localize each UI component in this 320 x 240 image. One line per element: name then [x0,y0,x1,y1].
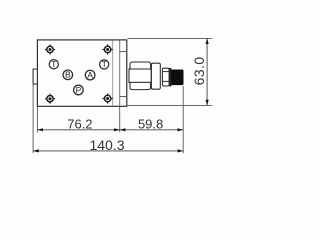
left locating tab [33,69,37,84]
port T right [100,59,109,69]
dimension line 76.2 / 59.8 [37,129,183,131]
extension line bottom (63.0) [128,104,212,106]
valve body block with plate (outline) [37,40,126,106]
port A [85,70,95,80]
svg-text:59.8: 59.8 [138,117,163,132]
extension line block left edge [36,106,38,132]
arrow bowtie right [120,128,126,131]
arrow top 63.0 [206,38,209,44]
screw hole bottom-right [103,93,113,103]
svg-text:P: P [76,85,82,95]
svg-text:A: A [87,70,93,80]
plate inner vertical line [119,40,121,105]
arrow left 140.3 [33,149,39,152]
extension line right (from knob) [182,86,184,153]
block/plate parting line [112,40,114,105]
svg-text:T: T [51,59,56,69]
port B [63,70,73,80]
plate tick top [120,51,127,53]
svg-text:63.0: 63.0 [191,56,207,85]
screw hole top-left [45,44,55,54]
screw hole bottom-left [45,94,55,104]
arrow left 76.2 [37,128,43,131]
extension line plate [119,106,121,132]
arrow bottom 63.0 [206,100,209,106]
arrow right 140.3 [178,149,184,152]
hex nut bottom band [130,82,151,89]
svg-text:76.2: 76.2 [67,117,92,132]
plate tick bottom [120,96,127,98]
dimension line 63.0 vertical [206,38,208,105]
hex nut middle band [129,69,151,82]
svg-text:B: B [65,70,71,80]
svg-text:T: T [102,59,107,69]
washer ring edge [169,68,171,87]
screw hole top-right [103,44,113,54]
port P [74,85,84,95]
adjustment knob (black) [171,70,183,85]
lock nut [162,68,169,86]
dimension line 140.3 [33,150,183,152]
extension line left (from tab) [32,85,34,154]
valve cap [151,63,160,89]
svg-text:140.3: 140.3 [89,137,124,153]
extension line top (63.0) [128,37,212,39]
arrow bowtie left [114,128,120,131]
hex nut top band [130,62,151,69]
port T left [49,59,58,69]
arrow right 59.8 [178,128,184,131]
